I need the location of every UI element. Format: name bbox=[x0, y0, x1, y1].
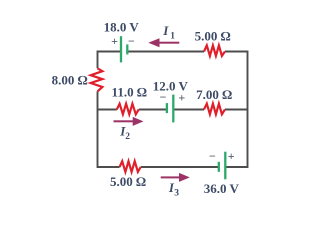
svg-text:18.0 V: 18.0 V bbox=[104, 20, 140, 35]
svg-text:+: + bbox=[111, 34, 118, 48]
wire top-left segment bbox=[98, 52, 122, 69]
svg-text:1: 1 bbox=[170, 31, 175, 41]
svg-text:8.00 Ω: 8.00 Ω bbox=[52, 72, 88, 87]
svg-text:−: − bbox=[128, 34, 135, 48]
battery 36.0 V plates bbox=[219, 152, 226, 180]
svg-text:11.0 Ω: 11.0 Ω bbox=[112, 84, 147, 99]
battery 12.0 V plates bbox=[167, 95, 173, 123]
current arrow I3 bbox=[161, 173, 190, 182]
current arrow I1 bbox=[148, 38, 179, 47]
resistor 5.00 ohm bottom bbox=[120, 161, 141, 172]
resistor 7.00 ohm middle bbox=[204, 104, 225, 115]
wire middle row segment b bbox=[139, 109, 167, 111]
svg-text:3: 3 bbox=[174, 188, 179, 198]
svg-text:36.0 V: 36.0 V bbox=[204, 181, 240, 196]
svg-text:2: 2 bbox=[125, 132, 130, 142]
svg-text:5.00 Ω: 5.00 Ω bbox=[195, 28, 231, 43]
svg-text:+: + bbox=[178, 91, 185, 105]
wire middle row segment a bbox=[98, 109, 117, 111]
svg-text:−: − bbox=[160, 90, 167, 104]
current arrow I2 bbox=[114, 117, 144, 126]
wire middle row segment d bbox=[225, 109, 248, 111]
svg-text:+: + bbox=[228, 149, 235, 163]
resistor 5.00 ohm top bbox=[204, 45, 225, 56]
svg-text:5.00 Ω: 5.00 Ω bbox=[110, 174, 146, 189]
resistor 8.00 ohm left bbox=[91, 68, 103, 91]
svg-text:I: I bbox=[162, 23, 169, 38]
resistor 11.0 ohm middle bbox=[117, 104, 139, 115]
wire left-lower and bottom-left segment bbox=[98, 91, 120, 167]
svg-text:7.00 Ω: 7.00 Ω bbox=[196, 87, 232, 102]
wire top-middle segment bbox=[127, 51, 204, 53]
wire middle row segment c bbox=[173, 109, 204, 111]
svg-text:−: − bbox=[209, 149, 216, 163]
battery 18.0 V plates bbox=[121, 36, 127, 62]
wire bottom-middle segment bbox=[141, 166, 219, 168]
wire top-right, right side, bottom-right segment bbox=[225, 52, 248, 168]
